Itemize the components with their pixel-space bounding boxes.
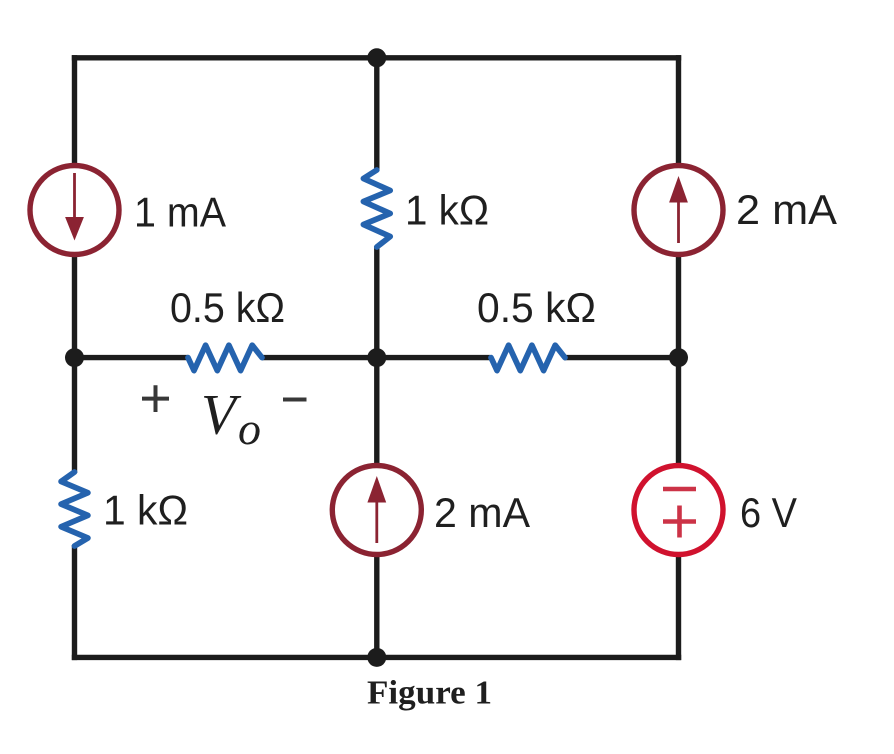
voltage source V1 minus sign: [663, 487, 696, 492]
current source I1 arrow (down): [73, 173, 76, 222]
Vo plus polarity mark: [142, 385, 169, 412]
wire left vertical (middle node to R4): [72, 355, 77, 473]
Vo minus polarity mark: [283, 398, 307, 402]
current source I2 arrow (up): [677, 199, 680, 243]
node left middle junction dot: [65, 348, 84, 367]
svg-text:o: o: [238, 403, 261, 454]
current source I3 arrow (up): [375, 499, 378, 543]
voltage source V1 plus sign: [663, 506, 696, 538]
resistor R4 1 kOhm vertical zigzag: [61, 472, 88, 546]
wire middle vertical upper (top node to R1): [374, 55, 379, 171]
wire middle vertical (center node to I3): [374, 355, 379, 465]
wire bottom horizontal: [72, 655, 681, 660]
wire middle vertical (R1 to center node): [374, 246, 379, 360]
wire middle horizontal right (R3 to right node): [564, 355, 679, 360]
svg-text:1 kΩ: 1 kΩ: [103, 487, 188, 534]
svg-text:2 mA: 2 mA: [434, 489, 530, 536]
wire left vertical lower (R4 to bottom corner): [72, 545, 77, 660]
wire right vertical (I2 to right middle node): [676, 255, 681, 360]
wire middle horizontal left (left node to R2): [75, 355, 189, 360]
node top middle junction dot: [367, 48, 386, 67]
wire left vertical upper (corner to I1): [72, 55, 77, 165]
resistor R2 0.5 kOhm horizontal zigzag: [188, 345, 262, 370]
node center junction dot: [367, 348, 386, 367]
voltage source V1 circle (6 V): [634, 466, 723, 555]
wire right vertical upper (corner to I2): [676, 55, 681, 165]
wire right vertical (right middle node to V1): [676, 355, 681, 465]
svg-text:1 kΩ: 1 kΩ: [405, 187, 489, 234]
wire left vertical (I1 to middle node): [72, 255, 77, 360]
wire right vertical lower (V1 to bottom corner): [676, 555, 681, 660]
svg-text:0.5 kΩ: 0.5 kΩ: [477, 284, 596, 331]
current source I2 circle (2 mA top right): [634, 166, 723, 255]
svg-text:0.5 kΩ: 0.5 kΩ: [170, 284, 285, 331]
node right middle junction dot: [669, 348, 688, 367]
svg-text:6 V: 6 V: [740, 489, 797, 536]
current source I3 circle (2 mA bottom middle): [332, 466, 421, 555]
resistor R3 0.5 kOhm horizontal zigzag: [491, 345, 565, 370]
svg-text:1 mA: 1 mA: [134, 189, 226, 236]
wire middle vertical lower (I3 to bottom node): [374, 555, 379, 660]
current source I1 circle (1 mA): [30, 166, 119, 255]
svg-text:V: V: [201, 384, 242, 447]
node bottom middle junction dot: [367, 648, 386, 667]
wire middle horizontal (R2 to center node): [262, 355, 490, 360]
svg-text:2 mA: 2 mA: [736, 186, 837, 233]
wire top horizontal: [72, 55, 681, 60]
svg-text:Figure 1: Figure 1: [367, 675, 492, 712]
resistor R1 1 kOhm vertical zigzag: [363, 170, 390, 247]
